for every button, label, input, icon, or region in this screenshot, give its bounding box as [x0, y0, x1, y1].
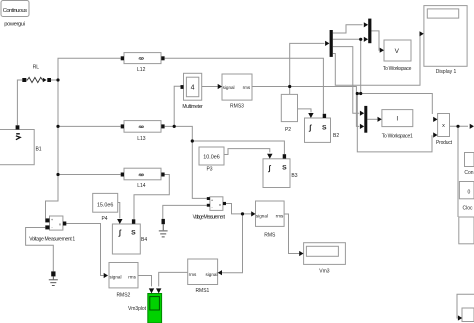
svg-text:signal: signal [256, 213, 268, 218]
svg-text:RMS2: RMS2 [116, 293, 130, 299]
svg-text:Voltage Measurement 1: Voltage Measurement 1 [29, 237, 75, 243]
svg-text:rms: rms [189, 272, 197, 277]
svg-text:15.0e6: 15.0e6 [97, 202, 114, 208]
svg-text:10.0e6: 10.0e6 [203, 154, 220, 160]
svg-text:To Workspace: To Workspace [383, 66, 412, 72]
svg-text:RMS: RMS [264, 232, 276, 238]
svg-text:powergui: powergui [4, 21, 25, 27]
svg-text:P2: P2 [285, 127, 291, 133]
svg-text:v: v [219, 202, 221, 207]
svg-text:rms: rms [276, 213, 284, 218]
svg-text:4: 4 [191, 85, 195, 92]
svg-text:Voltage Measurement: Voltage Measurement [193, 215, 226, 221]
svg-text:RMS1: RMS1 [195, 288, 209, 294]
svg-text:L12: L12 [137, 67, 146, 73]
svg-text:rms: rms [128, 275, 136, 280]
svg-text:signal: signal [205, 272, 217, 277]
svg-text:L14: L14 [137, 183, 146, 189]
svg-text:signal: signal [109, 275, 121, 280]
svg-text:B2: B2 [333, 133, 339, 139]
svg-text:Cloc: Cloc [462, 205, 473, 211]
svg-text:S: S [322, 124, 327, 131]
svg-text:Multimeter: Multimeter [182, 104, 203, 110]
svg-text:B1: B1 [35, 147, 41, 153]
svg-text:x: x [442, 123, 445, 129]
svg-text:Vm3plot: Vm3plot [128, 306, 147, 312]
svg-text:signal: signal [223, 85, 235, 90]
svg-text:B4: B4 [141, 237, 147, 243]
svg-text:To Workspace1: To Workspace1 [382, 133, 413, 139]
svg-text:Display 1: Display 1 [436, 69, 457, 75]
svg-text:S: S [131, 230, 136, 237]
svg-text:0: 0 [468, 189, 471, 195]
svg-text:L13: L13 [137, 136, 146, 142]
svg-text:RMS3: RMS3 [230, 104, 244, 110]
svg-text:V: V [395, 48, 400, 55]
svg-text:Con: Con [464, 170, 473, 176]
svg-text:v: v [59, 222, 61, 227]
svg-text:Vm3: Vm3 [319, 269, 330, 275]
svg-text:P4: P4 [101, 216, 107, 222]
svg-text:S: S [282, 165, 287, 172]
svg-text:rms: rms [243, 85, 251, 90]
svg-text:B3: B3 [291, 173, 297, 179]
svg-text:RL: RL [33, 65, 40, 71]
svg-text:P3: P3 [206, 166, 212, 172]
svg-text:I: I [396, 115, 398, 122]
svg-text:Product: Product [436, 140, 453, 146]
svg-text:Continuous: Continuous [3, 8, 27, 14]
